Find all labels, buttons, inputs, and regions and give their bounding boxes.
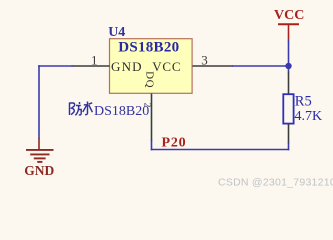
IC U4 DS18B20 body rectangle [110, 39, 193, 94]
pin 2 (DQ) of U4 [151, 94, 153, 142]
wire from pin 3 to VCC net (horizontal) [232, 65, 289, 67]
wire resistor bottom to corner (vertical) [288, 143, 290, 151]
resistor R5 body [283, 94, 293, 123]
svg-text:P20: P20 [162, 136, 187, 151]
designator U4 [108, 25, 125, 40]
svg-text:R5: R5 [295, 94, 312, 110]
watermark text CSDN [218, 176, 333, 188]
ground symbol [26, 138, 54, 162]
U4 pin name DQ (rotated) [144, 71, 156, 88]
pin 3 of U4 [193, 65, 234, 67]
U4 pin name VCC [152, 59, 181, 74]
svg-text:U4: U4 [108, 25, 125, 40]
designator R5 [295, 94, 312, 110]
svg-text:VCC: VCC [152, 59, 181, 74]
wire from pin 1 corner down to ground (vertical) [38, 65, 40, 138]
ground label GND [24, 163, 54, 178]
wire bottom horizontal from DQ to resistor [151, 149, 290, 151]
junction node at pin3/VCC wire [285, 63, 291, 69]
comment text (Chinese) char 2 of waterproof DS18B20 note [83, 102, 93, 115]
pin number 2 (rotated) [142, 103, 152, 108]
wire from pin 1 to ground (horizontal) [38, 65, 72, 67]
VCC power symbol [274, 8, 304, 41]
svg-text:1: 1 [91, 52, 98, 67]
svg-text:DS18B20: DS18B20 [118, 39, 179, 55]
svg-text:4.7K: 4.7K [295, 109, 323, 124]
svg-text:GND: GND [111, 59, 143, 74]
svg-text:VCC: VCC [274, 8, 304, 23]
resistor R5 bottom pin [288, 123, 290, 143]
resistor R5 top pin [288, 72, 290, 95]
wire DQ pin down to bottom wire (vertical) [151, 140, 153, 150]
pin number 3 [201, 52, 208, 67]
wire VCC stub down to junction [288, 40, 290, 73]
svg-text:3: 3 [201, 52, 208, 67]
value 4.7K [295, 109, 323, 124]
comment text (Chinese) char 1 of waterproof DS18B20 note [70, 102, 82, 115]
comment text DS18B20 of waterproof note [94, 104, 149, 119]
svg-text:DQ: DQ [144, 71, 156, 88]
pin number 1 [91, 52, 98, 67]
svg-text:DS18B20: DS18B20 [94, 104, 149, 119]
svg-text:GND: GND [24, 163, 54, 178]
IC U4 name label DS18B20 [118, 39, 179, 55]
net label P20 [162, 136, 187, 151]
U4 pin name GND [111, 59, 143, 74]
pin 1 of U4 [72, 65, 110, 67]
svg-text:CSDN @2301_79312104: CSDN @2301_79312104 [218, 176, 333, 188]
